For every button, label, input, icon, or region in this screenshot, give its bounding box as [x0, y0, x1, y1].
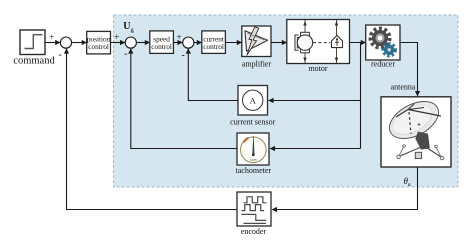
wire command to summing junction 1: [45, 42, 60, 44]
wire current control to amplifier: [225, 42, 241, 44]
svg-text:command: command: [13, 56, 55, 67]
wire junction 2 to speed control: [137, 42, 150, 44]
svg-text:-: -: [124, 49, 127, 60]
current sensor block: [230, 86, 275, 127]
svg-text:+: +: [114, 33, 119, 43]
summing junction 3: [183, 37, 194, 48]
svg-text:encoder: encoder: [241, 227, 267, 236]
svg-text:A: A: [250, 95, 257, 105]
svg-text:motor: motor: [308, 64, 327, 73]
speed control block: [150, 31, 174, 54]
svg-text:control: control: [88, 42, 109, 51]
svg-text:control: control: [203, 42, 224, 51]
wire tachometer to junction 2 (speed feedback): [131, 49, 237, 149]
svg-text:amplifier: amplifier: [242, 60, 272, 69]
current control block: [202, 31, 226, 54]
encoder block: [237, 192, 271, 236]
wire reducer to antenna: [400, 43, 418, 97]
summing junction 2: [125, 37, 136, 48]
svg-text:antenna: antenna: [391, 83, 416, 92]
motor block: [287, 20, 350, 74]
feed struts: [408, 110, 441, 117]
svg-text:-: -: [58, 50, 61, 61]
wire encoder to junction 1 (position feedback): [67, 49, 238, 210]
svg-text:+: +: [49, 33, 54, 43]
svg-text:current sensor: current sensor: [230, 118, 275, 127]
wire tap to current sensor: [269, 100, 361, 102]
wire junction 3 to current control: [194, 42, 202, 44]
wire amplifier to motor: [271, 42, 287, 44]
wire motor to reducer: [350, 42, 366, 44]
legs: [400, 148, 420, 157]
pedestal: [415, 132, 430, 150]
svg-text:reducer: reducer: [371, 60, 395, 69]
command source block: [13, 30, 55, 67]
right shaft line with arrows: [336, 20, 338, 64]
wire current sensor to junction 3 (current feedback): [188, 49, 238, 101]
tachometer block: [236, 133, 272, 175]
tap line from motor shaft node: [360, 43, 362, 149]
wire speed control to summing junction 3: [173, 42, 182, 44]
position control block: [87, 31, 111, 54]
svg-text:r.p.m: r.p.m: [250, 158, 257, 162]
antenna block: [381, 94, 451, 167]
wire tap to tachometer: [270, 148, 361, 150]
wire junction 1 to position control: [72, 42, 87, 44]
dish: [383, 94, 444, 146]
amplifier block: [242, 26, 272, 69]
motor symbol: [295, 35, 299, 50]
wire antenna to encoder: [272, 167, 418, 210]
svg-text:tachometer: tachometer: [236, 166, 272, 175]
left shaft line with arrows: [304, 20, 306, 64]
shaded inner-loop region: [114, 15, 459, 187]
reducer block: [366, 25, 400, 69]
large gear: [371, 29, 389, 47]
summing junction 1: [60, 37, 71, 48]
svg-text:-: -: [182, 50, 185, 61]
small gear: [383, 44, 395, 56]
wire position control to summing junction 2: [111, 42, 126, 44]
svg-text:+: +: [176, 33, 181, 43]
svg-text:control: control: [151, 42, 172, 51]
dashed shaft: [313, 42, 331, 44]
load symbol: [332, 35, 343, 47]
